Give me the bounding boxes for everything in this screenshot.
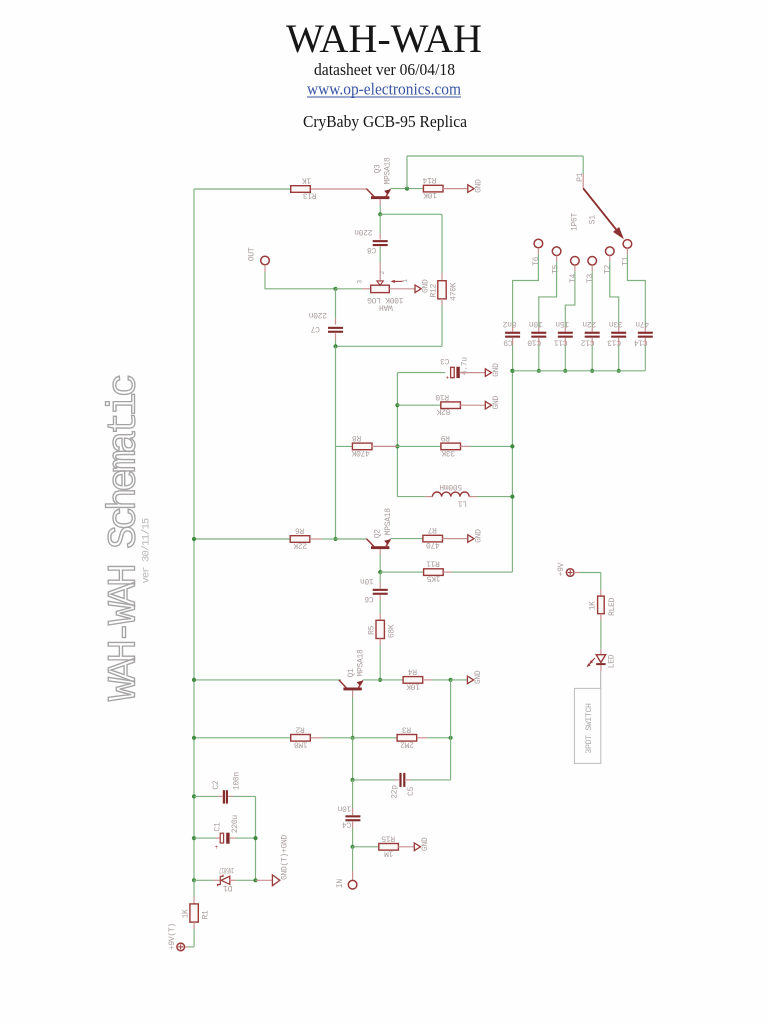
svg-text:1K: 1K [182,909,191,919]
svg-text:T2: T2 [604,264,613,274]
svg-text:R8: R8 [352,433,362,442]
svg-text:1N5817: 1N5817 [219,865,234,874]
svg-text:10n: 10n [360,576,374,585]
svg-text:8n2: 8n2 [502,319,516,328]
svg-text:R2: R2 [295,724,305,733]
svg-text:2: 2 [379,271,386,275]
svg-text:R11: R11 [426,559,440,568]
svg-text:L1: L1 [458,499,468,508]
svg-text:R10: R10 [435,392,449,401]
svg-text:100n: 100n [233,772,242,791]
svg-text:P1: P1 [576,172,585,182]
svg-text:R3: R3 [402,724,412,733]
svg-text:3: 3 [357,280,364,284]
svg-text:33K: 33K [441,448,455,457]
svg-text:C1: C1 [214,822,223,832]
svg-text:C6: C6 [364,594,374,603]
svg-text:C4: C4 [342,820,352,829]
svg-text:S1: S1 [588,215,597,225]
svg-text:+9V: +9V [557,562,566,576]
svg-text:82K: 82K [436,407,450,416]
svg-text:R7: R7 [427,525,437,534]
svg-text:GND: GND [474,179,483,193]
svg-text:220u: 220u [231,815,240,834]
svg-text:3PDT SWITCH: 3PDT SWITCH [585,703,594,754]
svg-text:D1: D1 [223,883,233,892]
svg-text:MPSA18: MPSA18 [383,157,392,185]
svg-text:10K: 10K [406,681,420,690]
svg-text:MPSA18: MPSA18 [357,649,366,677]
svg-text:220n: 220n [354,227,373,236]
svg-text:T5: T5 [552,264,561,274]
svg-text:WAH-WAH: WAH-WAH [286,16,482,61]
svg-text:1K: 1K [302,176,312,185]
svg-text:C7: C7 [310,324,320,333]
svg-text:GND: GND [492,395,501,409]
svg-text:22n: 22n [582,319,596,328]
svg-text:68K: 68K [387,624,396,638]
svg-text:GND: GND [492,363,501,377]
svg-text:C2: C2 [212,780,221,790]
svg-text:R9: R9 [441,433,451,442]
svg-text:1M8: 1M8 [294,739,308,748]
svg-text:R1: R1 [201,910,210,920]
svg-text:R6: R6 [295,526,305,535]
svg-text:1: 1 [402,279,409,283]
svg-text:LED: LED [608,654,617,668]
svg-text:GND(T)+GND: GND(T)+GND [280,835,289,881]
svg-text:T6: T6 [532,256,541,266]
svg-text:GND: GND [474,670,483,684]
svg-text:R14: R14 [422,175,436,184]
svg-text:C3: C3 [440,356,450,365]
svg-text:1K5: 1K5 [426,574,440,583]
svg-text:10n: 10n [337,803,351,812]
svg-text:WAH: WAH [379,302,393,311]
svg-text:GND: GND [474,529,483,543]
svg-text:1M: 1M [384,848,394,857]
svg-text:R4: R4 [408,666,418,675]
svg-text:Q2: Q2 [373,529,382,539]
svg-text:10n: 10n [529,319,543,328]
svg-text:500mH: 500mH [439,482,462,491]
svg-text:C9: C9 [503,338,513,347]
svg-text:10K: 10K [423,190,437,199]
svg-text:47n: 47n [635,319,649,328]
svg-text:1K: 1K [588,601,597,611]
svg-text:+: + [215,844,219,851]
svg-text:C5: C5 [407,787,416,797]
svg-text:2M2: 2M2 [400,739,414,748]
svg-text:470K: 470K [351,448,370,457]
svg-text:22p: 22p [390,785,399,799]
svg-text:T1: T1 [621,256,630,266]
svg-text:R15: R15 [381,833,395,842]
svg-text:33n: 33n [609,319,623,328]
svg-text:Q1: Q1 [347,668,356,678]
svg-text:T4: T4 [569,274,578,284]
svg-text:Q3: Q3 [374,164,383,174]
svg-text:RLED: RLED [608,597,617,616]
svg-text:OUT: OUT [248,247,257,261]
svg-text:470: 470 [426,540,440,549]
svg-text:C8: C8 [367,245,377,254]
svg-text:MPSA18: MPSA18 [384,508,393,536]
svg-text:+: + [446,375,450,382]
svg-text:220n: 220n [309,310,328,319]
svg-text:IN: IN [336,879,345,889]
svg-text:GND: GND [422,279,431,293]
svg-text:470K: 470K [449,282,458,301]
svg-text:T3: T3 [586,274,595,284]
svg-text:ver 30/11/15: ver 30/11/15 [140,518,152,583]
svg-text:R5: R5 [368,625,377,635]
svg-text:R12: R12 [430,284,439,298]
svg-text:GND: GND [421,837,430,851]
svg-text:CryBaby GCB-95 Replica: CryBaby GCB-95 Replica [303,112,467,131]
svg-text:1P6T: 1P6T [571,213,580,232]
svg-text:15n: 15n [555,319,569,328]
svg-text:R13: R13 [303,191,317,200]
svg-text:www.op-electronics.com: www.op-electronics.com [307,80,461,99]
svg-text:+9V(T): +9V(T) [168,923,177,950]
svg-text:datasheet ver 06/04/18: datasheet ver 06/04/18 [314,60,455,79]
svg-text:22K: 22K [293,540,307,549]
